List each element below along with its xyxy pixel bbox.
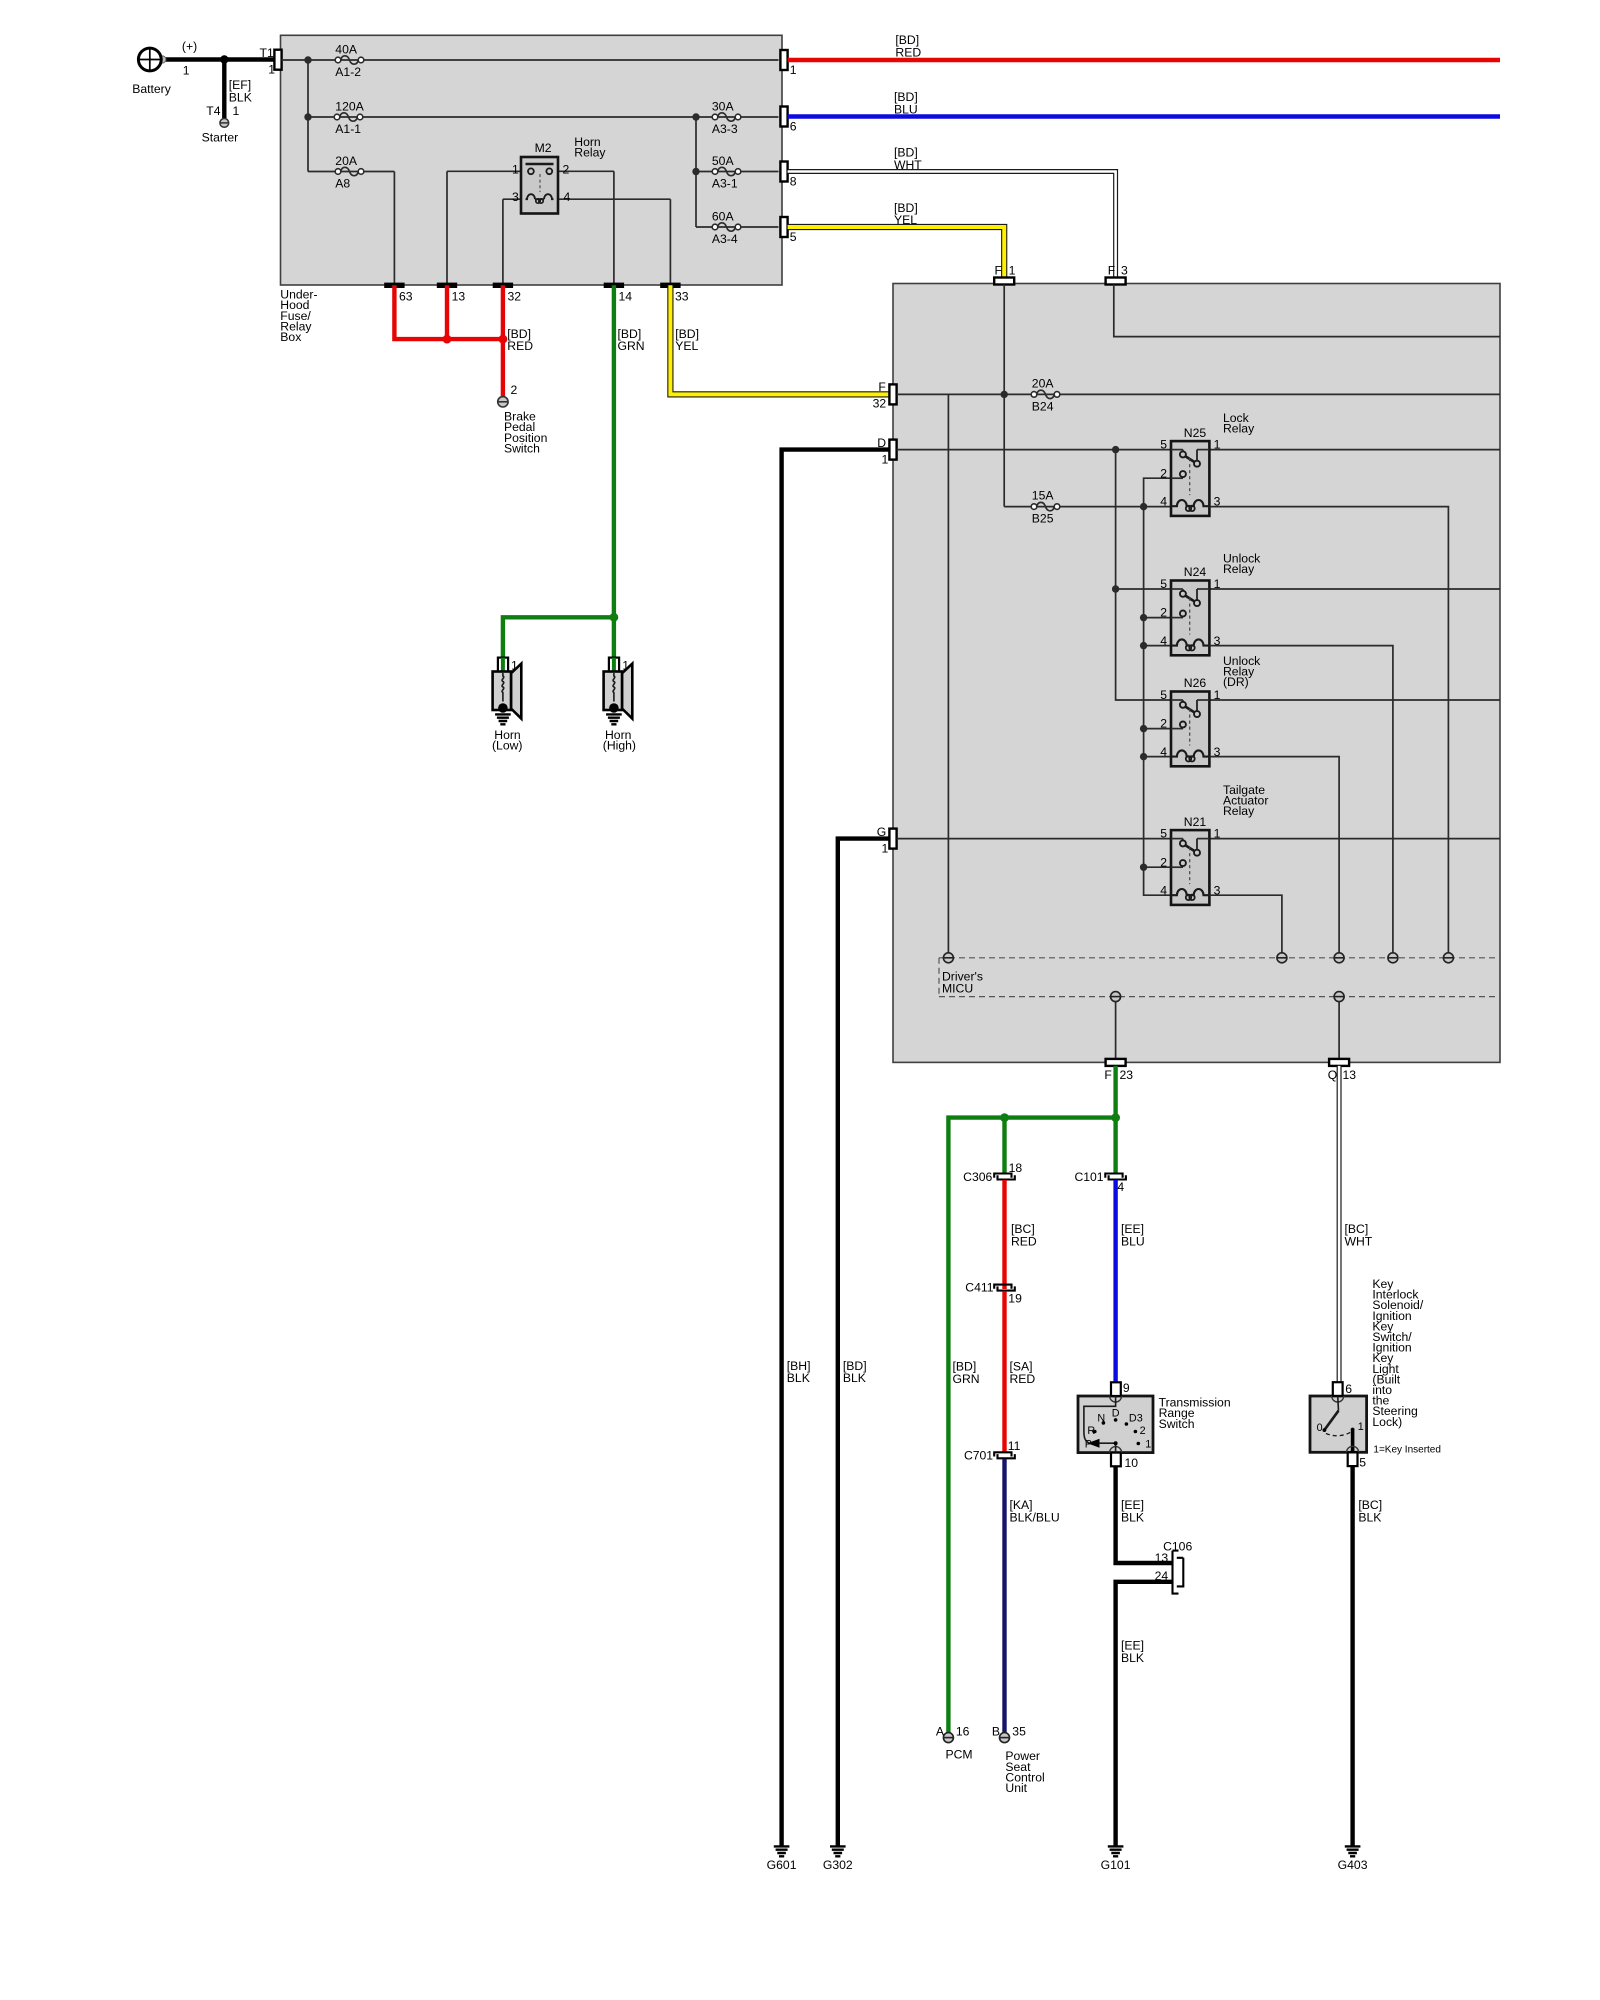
svg-text:RED: RED <box>895 46 921 60</box>
svg-text:BLK/BLU: BLK/BLU <box>1010 1511 1060 1525</box>
wire 32 red to brake switch <box>501 285 505 396</box>
svg-text:1: 1 <box>882 453 889 467</box>
svg-text:Switch: Switch <box>504 441 540 455</box>
svg-text:T4: T4 <box>206 104 220 118</box>
wire [EE] BLK C106 to G101 <box>1116 1582 1172 1846</box>
svg-text:20A: 20A <box>1032 377 1055 391</box>
svg-text:8: 8 <box>790 174 797 188</box>
svg-text:30A: 30A <box>712 99 735 113</box>
svg-text:4: 4 <box>564 190 571 204</box>
svg-text:9: 9 <box>1123 1381 1130 1395</box>
driver's MICU dashed block <box>939 958 1500 997</box>
svg-text:13: 13 <box>452 290 466 304</box>
node PCM terminal <box>943 1733 953 1743</box>
wire green F23 net <box>1113 1066 1117 1173</box>
svg-text:F: F <box>1104 1068 1111 1082</box>
svg-text:14: 14 <box>619 290 633 304</box>
svg-text:19: 19 <box>1008 1292 1022 1306</box>
connector D1 on box2 left <box>889 440 896 460</box>
svg-text:N26: N26 <box>1184 676 1207 690</box>
svg-text:6: 6 <box>790 119 797 133</box>
svg-text:1: 1 <box>268 63 275 77</box>
svg-text:BLK: BLK <box>1358 1511 1381 1525</box>
svg-text:N21: N21 <box>1184 815 1207 829</box>
svg-text:10: 10 <box>1125 1456 1139 1470</box>
wire D row / N25 feed <box>897 449 1171 451</box>
svg-text:32: 32 <box>873 397 887 411</box>
wire F3 drop <box>1114 285 1500 337</box>
horn (high) <box>603 658 636 753</box>
svg-text:D3: D3 <box>1129 1413 1143 1425</box>
wire N26 pin3 to MICU <box>1209 757 1339 954</box>
wire F1 drop <box>1003 285 1005 507</box>
svg-text:BLK: BLK <box>787 1371 810 1385</box>
svg-text:RED: RED <box>1011 1235 1037 1249</box>
svg-text:60A: 60A <box>712 209 735 223</box>
svg-text:A1-1: A1-1 <box>335 122 361 136</box>
svg-text:5: 5 <box>790 230 797 244</box>
connector C106 <box>1155 1539 1193 1593</box>
connector C101 <box>1105 1174 1126 1180</box>
wire M2 pin4 to 33 <box>669 199 671 283</box>
wire M2 pin1 to 13 <box>446 171 448 283</box>
wire MICU to Q13 <box>1338 1001 1340 1059</box>
svg-text:T1: T1 <box>260 46 274 60</box>
svg-text:BLU: BLU <box>1121 1235 1145 1249</box>
svg-text:B25: B25 <box>1032 511 1054 525</box>
ground G403 <box>1345 1846 1361 1856</box>
wire [BD] BLK G1 to G302 <box>838 839 890 1846</box>
ground G302 <box>830 1846 846 1856</box>
svg-text:G601: G601 <box>767 1858 797 1872</box>
svg-text:D: D <box>1112 1408 1120 1420</box>
relay M2 horn relay <box>447 141 670 214</box>
svg-text:4: 4 <box>1117 1180 1124 1194</box>
svg-text:2: 2 <box>511 383 518 397</box>
node MICU bubbles row1 <box>943 953 953 963</box>
starter <box>202 104 240 144</box>
svg-text:1=Key Inserted: 1=Key Inserted <box>1373 1444 1441 1455</box>
wire [BC] WHT Q13 to key switch <box>1337 1066 1342 1382</box>
svg-text:F: F <box>1108 264 1115 278</box>
svg-text:WHT: WHT <box>894 158 922 172</box>
svg-text:C101: C101 <box>1074 1170 1103 1184</box>
svg-text:BLK: BLK <box>843 1371 866 1385</box>
svg-text:Box: Box <box>280 330 301 344</box>
connector C701 <box>994 1452 1015 1458</box>
battery <box>132 39 274 96</box>
relay N25 lock relay <box>1160 438 1220 516</box>
svg-text:3: 3 <box>1121 264 1128 278</box>
svg-text:Switch: Switch <box>1159 1417 1195 1431</box>
fuse 30A A3-3 <box>712 113 741 121</box>
node power seat control unit terminal <box>1000 1733 1010 1743</box>
fuse 60A A3-4 <box>696 226 779 228</box>
connector Q13 on box2 bottom <box>1329 1059 1349 1066</box>
svg-text:1: 1 <box>233 104 240 118</box>
svg-text:13: 13 <box>1343 1068 1357 1082</box>
connector F32 on box2 left <box>889 384 896 404</box>
wire G row N21 feed <box>897 838 1171 840</box>
svg-text:Starter: Starter <box>202 131 239 145</box>
wire N21 pin3 to MICU <box>1209 895 1282 953</box>
svg-text:A: A <box>936 1725 945 1739</box>
ground G601 <box>774 1846 790 1856</box>
svg-text:Q: Q <box>1328 1068 1337 1082</box>
svg-text:(High): (High) <box>603 739 636 753</box>
transmission range switch <box>1078 1381 1231 1470</box>
wire M2 pin2 to 14 <box>613 171 615 283</box>
relay N24 unlock relay <box>1160 577 1220 655</box>
under-hood fuse/relay box <box>281 35 783 285</box>
svg-text:N25: N25 <box>1184 426 1207 440</box>
svg-text:BLK: BLK <box>229 91 252 105</box>
wire [KA] BLK/BLU <box>1002 1459 1006 1733</box>
wire [EE] BLK TRS to C106 <box>1116 1466 1172 1563</box>
fuse 120A A1-1 <box>308 116 779 118</box>
svg-text:BLU: BLU <box>894 103 918 117</box>
svg-text:YEL: YEL <box>894 213 917 227</box>
svg-text:Unit: Unit <box>1005 1781 1027 1795</box>
wire [BD] RED top <box>788 58 1500 62</box>
connector F1 on box2 top <box>994 278 1014 285</box>
wire [SA] RED <box>1002 1291 1006 1452</box>
wire [BC] RED <box>1002 1180 1006 1289</box>
horn (low) <box>492 658 522 753</box>
relay N21 tailgate actuator relay <box>1160 827 1220 905</box>
svg-text:5: 5 <box>1359 1455 1366 1469</box>
svg-text:PCM: PCM <box>946 1747 973 1761</box>
svg-text:1: 1 <box>1145 1439 1151 1451</box>
svg-text:6: 6 <box>1345 1382 1352 1396</box>
svg-text:BLK: BLK <box>1121 1511 1144 1525</box>
svg-text:1: 1 <box>1009 264 1016 278</box>
connector C306 <box>994 1174 1015 1180</box>
svg-text:GRN: GRN <box>953 1372 980 1386</box>
svg-text:16: 16 <box>956 1725 970 1739</box>
svg-text:GRN: GRN <box>618 339 645 353</box>
box1 bottom connectors 63 13 32 14 33 <box>384 283 404 288</box>
svg-text:13: 13 <box>1155 1551 1169 1565</box>
wire [BH] BLK D1 to G601 <box>782 450 890 1846</box>
svg-text:Lock): Lock) <box>1372 1415 1402 1429</box>
svg-text:MICU: MICU <box>942 981 973 995</box>
brake pedal position switch <box>498 383 548 456</box>
svg-text:15A: 15A <box>1032 489 1055 503</box>
wire MICU to F23 <box>1115 1001 1117 1059</box>
wire [BD] YEL <box>788 227 1005 278</box>
svg-text:G403: G403 <box>1338 1858 1368 1872</box>
wire B25 row <box>1004 506 1171 508</box>
svg-text:WHT: WHT <box>1345 1235 1373 1249</box>
svg-text:A3-4: A3-4 <box>712 232 738 246</box>
svg-text:RED: RED <box>507 339 533 353</box>
wire 14 green to horns <box>612 285 616 657</box>
svg-text:B: B <box>992 1725 1000 1739</box>
svg-text:1: 1 <box>1358 1421 1364 1433</box>
svg-text:P: P <box>1085 1439 1092 1451</box>
svg-text:1: 1 <box>790 63 797 77</box>
svg-text:40A: 40A <box>335 42 358 56</box>
svg-text:A3-3: A3-3 <box>712 122 738 136</box>
node MICU bubbles row2 <box>1111 992 1121 1002</box>
fuse 50A A3-1 <box>696 171 779 173</box>
wire [BD] WHT <box>788 172 1116 279</box>
svg-text:A3-1: A3-1 <box>712 176 738 190</box>
svg-text:Battery: Battery <box>132 82 172 96</box>
svg-text:Relay: Relay <box>1223 804 1255 818</box>
svg-text:C411: C411 <box>965 1281 993 1295</box>
fuse 20A A8 <box>308 171 394 173</box>
ground G101 <box>1108 1846 1124 1856</box>
connector C411 <box>994 1285 1015 1291</box>
svg-text:A1-2: A1-2 <box>335 65 361 79</box>
svg-text:F: F <box>878 380 885 394</box>
connector G1 on box2 left <box>889 829 896 849</box>
wire B24 row <box>897 393 1500 395</box>
svg-text:1: 1 <box>183 64 190 78</box>
svg-text:Relay: Relay <box>1223 422 1255 436</box>
wire N25 pin3 to MICU <box>1209 507 1448 954</box>
svg-text:23: 23 <box>1120 1068 1134 1082</box>
svg-text:50A: 50A <box>712 154 735 168</box>
wire 13 red <box>445 285 449 339</box>
svg-text:(+): (+) <box>182 39 197 53</box>
wire [EE] BLU <box>1113 1180 1117 1382</box>
svg-text:2: 2 <box>563 162 570 176</box>
svg-text:F: F <box>995 264 1002 278</box>
svg-text:(Low): (Low) <box>492 739 522 753</box>
connector F23 on box2 bottom <box>1106 1059 1126 1066</box>
wire N24 pin3 to MICU <box>1209 646 1393 954</box>
svg-text:C701: C701 <box>964 1448 993 1462</box>
svg-text:G101: G101 <box>1101 1858 1131 1872</box>
box1 right edge connectors <box>780 50 787 70</box>
wire vertical A relay 5-pin feed <box>1116 450 1171 700</box>
wire 33 yellow to F32 <box>670 285 889 394</box>
svg-text:Relay: Relay <box>574 146 606 160</box>
wire 63 red jumper <box>394 285 503 339</box>
wire 20A to pin 63 <box>393 172 395 284</box>
fuse 20A B24 <box>1031 390 1060 398</box>
wire [BD] BLU <box>788 114 1500 118</box>
svg-text:G302: G302 <box>823 1858 853 1872</box>
svg-text:3: 3 <box>512 190 519 204</box>
svg-text:N24: N24 <box>1184 565 1207 579</box>
node right feed vertical <box>695 117 697 227</box>
wire vertical B relay coil chain <box>1144 478 1171 895</box>
connector F3 on box2 top <box>1106 278 1126 285</box>
svg-text:Relay: Relay <box>1223 562 1255 576</box>
svg-text:1: 1 <box>882 842 889 856</box>
svg-text:M2: M2 <box>535 141 552 155</box>
svg-text:0: 0 <box>1317 1422 1323 1434</box>
connector T1 <box>274 50 281 70</box>
svg-text:11: 11 <box>1008 1439 1021 1453</box>
key interlock solenoid / ignition key switch <box>1310 1382 1367 1470</box>
svg-text:RED: RED <box>1010 1372 1036 1386</box>
svg-text:18: 18 <box>1009 1161 1023 1175</box>
node main feed <box>282 59 779 61</box>
wire feed vertical <box>307 60 309 172</box>
wire M2 pin3 to 32 <box>502 199 504 283</box>
svg-text:C306: C306 <box>963 1170 992 1184</box>
svg-text:120A: 120A <box>335 99 364 113</box>
svg-text:A8: A8 <box>335 176 350 190</box>
svg-text:2: 2 <box>1140 1425 1146 1437</box>
svg-text:(DR): (DR) <box>1223 675 1249 689</box>
svg-text:BLK: BLK <box>1121 1651 1144 1665</box>
wire MICU drop from F32 line <box>947 394 949 953</box>
svg-text:20A: 20A <box>335 154 358 168</box>
fuse 40A A1-2 <box>335 56 364 64</box>
wire battery to starter <box>222 60 226 120</box>
svg-text:35: 35 <box>1012 1725 1026 1739</box>
driver's MICU box <box>893 284 1500 1063</box>
svg-text:1: 1 <box>512 162 519 176</box>
svg-text:63: 63 <box>399 290 413 304</box>
svg-text:32: 32 <box>508 290 522 304</box>
svg-text:33: 33 <box>675 290 689 304</box>
svg-text:B24: B24 <box>1032 399 1054 413</box>
relay N26 unlock relay (DR) <box>1160 688 1220 766</box>
svg-text:YEL: YEL <box>675 339 698 353</box>
wire [BC] BLK key switch to G403 <box>1350 1466 1354 1845</box>
key switch label <box>1372 1277 1423 1429</box>
